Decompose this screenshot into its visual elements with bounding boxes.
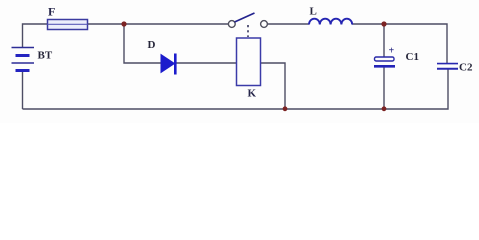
svg-text:L: L [310, 6, 317, 18]
wire junction B to top-right corner [384, 24, 447, 63]
relay contact switch [228, 13, 267, 27]
wire junction A down to diode [124, 24, 161, 63]
node B (junction dot) [381, 21, 386, 26]
wire battery negative to bottom rail [22, 71, 24, 109]
wire bottom rail [23, 70, 449, 110]
wire junction B down to C1 [383, 24, 385, 57]
node C (bottom junction, relay return) [283, 106, 288, 111]
fuse F [48, 20, 88, 30]
wire top rail left segment [23, 24, 48, 48]
dashed actuator link [247, 25, 249, 37]
wire diode to relay coil [177, 62, 237, 64]
svg-text:D: D [148, 39, 156, 51]
battery BT [12, 48, 35, 71]
inductor L [309, 19, 352, 25]
capacitor C2 [437, 64, 458, 69]
svg-text:F: F [48, 5, 55, 19]
wire switch to inductor [268, 23, 310, 25]
wire junction to switch [124, 23, 229, 25]
node D2 (bottom junction, C1 return) [382, 106, 387, 111]
diode D [161, 54, 177, 75]
capacitor C1 (electrolytic) [374, 46, 395, 67]
wire fuse to junction [88, 23, 124, 25]
svg-text:C2: C2 [459, 62, 473, 74]
wire C1 to bottom rail [383, 67, 385, 109]
svg-text:K: K [248, 88, 257, 100]
relay coil K [237, 38, 261, 86]
svg-text:C1: C1 [406, 51, 419, 63]
wire inductor to junction B [352, 23, 384, 25]
svg-text:BT: BT [38, 50, 53, 62]
svg-text:+: + [389, 46, 395, 57]
wire relay coil to bottom rail [261, 63, 285, 109]
node A (junction dot) [121, 21, 126, 26]
